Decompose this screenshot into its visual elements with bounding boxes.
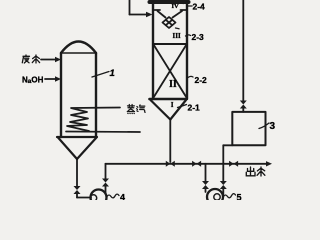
- svg-text:2-2: 2-2: [195, 75, 208, 85]
- svg-text:NaOH: NaOH: [22, 76, 44, 86]
- svg-text:IV: IV: [172, 3, 180, 10]
- svg-text:4: 4: [120, 193, 125, 201]
- svg-text:1: 1: [110, 68, 115, 79]
- svg-text:2-4: 2-4: [193, 2, 206, 12]
- svg-text:I: I: [171, 101, 174, 109]
- svg-text:3: 3: [270, 121, 276, 132]
- svg-text:II: II: [169, 79, 177, 90]
- svg-text:2-3: 2-3: [192, 32, 205, 42]
- svg-text:5: 5: [237, 193, 242, 201]
- svg-text:2-1: 2-1: [188, 103, 201, 113]
- svg-text:III: III: [173, 32, 181, 40]
